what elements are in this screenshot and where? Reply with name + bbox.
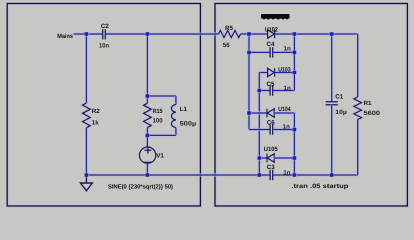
bottom rail right of C3 <box>273 173 358 177</box>
bottom rail left of C3 <box>86 173 270 177</box>
svg-text:C6: C6 <box>267 119 275 126</box>
svg-text:56: 56 <box>223 42 230 49</box>
bus wire busA <box>247 34 251 130</box>
wire R5 to U102 <box>241 32 268 36</box>
inductor L1 <box>171 105 175 128</box>
diode U103 <box>268 68 275 77</box>
svg-text:1n: 1n <box>284 85 291 92</box>
junction bottom rail / C1 <box>329 172 334 177</box>
wire midbus to U103 <box>259 71 267 75</box>
wire tank node to R15 <box>146 96 150 103</box>
capacitor C4 <box>270 47 273 57</box>
svg-text:1n: 1n <box>283 169 290 176</box>
junction tank bottom node <box>145 133 150 138</box>
junction busA / C4 row <box>246 50 251 55</box>
wire R2 to bottom rail <box>85 128 89 175</box>
junction top rail / right bus <box>292 31 297 36</box>
resistor R1 <box>354 97 362 120</box>
capacitor C6 <box>270 124 273 134</box>
wire busA to C4 <box>249 51 270 55</box>
junction right bus / C4 row <box>292 50 297 55</box>
wire top rail to R1 <box>356 34 360 97</box>
svg-text:10n: 10n <box>99 42 109 49</box>
diode U102 <box>268 30 275 39</box>
svg-text:U104: U104 <box>278 106 291 113</box>
junction top rail / R2 <box>84 31 89 36</box>
wire L1 top lead <box>174 96 178 105</box>
svg-text:1k: 1k <box>92 120 99 127</box>
wire busA to C6 <box>249 128 270 132</box>
ground <box>80 175 92 191</box>
junction busA / U104 row <box>246 110 251 115</box>
wire U102 to R1 corner <box>275 32 358 36</box>
wire C6 to right bus <box>273 128 294 132</box>
right schematic border box <box>215 4 407 207</box>
svg-text:R15: R15 <box>153 108 163 115</box>
svg-text:V1: V1 <box>156 153 164 160</box>
svg-text:10µ: 10µ <box>335 109 347 116</box>
wire C1 to bottom rail <box>330 105 334 175</box>
left schematic border box <box>7 4 200 207</box>
wire R1 to bottom rail <box>356 120 360 176</box>
bus wire right bus lower <box>293 113 297 175</box>
wire U105 to right bus <box>274 156 294 160</box>
bus wire right bus upper <box>293 34 297 91</box>
resistor R2 <box>83 103 91 128</box>
svg-text:100: 100 <box>153 118 164 125</box>
junction right bus / U105 row <box>292 155 297 160</box>
svg-text:U103: U103 <box>278 67 291 74</box>
svg-text:U105: U105 <box>264 146 279 153</box>
junction bottom rail / V1 <box>145 172 150 177</box>
wire top rail to R2 <box>85 34 89 103</box>
svg-text:C1: C1 <box>335 94 343 101</box>
junction top rail / C1 <box>329 31 334 36</box>
svg-text:L1: L1 <box>180 106 188 113</box>
wire V1 to bottom rail <box>146 163 150 175</box>
svg-text:C5: C5 <box>267 81 275 88</box>
resistor R15 <box>144 103 152 127</box>
svg-text:5600: 5600 <box>364 110 381 117</box>
diode U104 <box>267 109 274 118</box>
wire R15 to tank bottom node <box>146 128 150 136</box>
junction bottom rail / ground <box>84 172 89 177</box>
capacitor C5 <box>270 85 273 95</box>
svg-text:C4: C4 <box>267 41 275 48</box>
wire U104 to right bus <box>274 111 294 115</box>
wire tank to V1 <box>146 135 150 147</box>
capacitor C3 <box>270 170 273 180</box>
junction bottom rail / right bus <box>292 172 297 177</box>
highlighted directive blob <box>261 14 290 19</box>
wire midbus to U105 <box>259 156 267 160</box>
capacitor C1 <box>326 102 338 105</box>
wire busA to U104 <box>249 111 267 115</box>
junction top rail / busA <box>246 31 251 36</box>
svg-text:R2: R2 <box>92 108 100 115</box>
junction right bus / C6 row <box>292 127 297 132</box>
svg-text:C3: C3 <box>267 164 275 171</box>
svg-text:.tran .05 startup: .tran .05 startup <box>291 183 348 190</box>
wire top rail to C1 <box>330 34 334 102</box>
junction tank top node <box>145 93 150 98</box>
wire L1 bottom lead <box>174 128 178 136</box>
junction mid bus / C5 row <box>257 88 262 93</box>
svg-text:1n: 1n <box>284 46 291 53</box>
svg-text:C2: C2 <box>101 23 109 30</box>
wire C5 to right bus <box>273 89 294 93</box>
wire C2 to R5 <box>106 32 219 36</box>
wire tank bottom node to L1 <box>147 134 176 138</box>
bus wire mid bus <box>258 73 262 176</box>
wire top rail to tank <box>146 34 150 96</box>
svg-text:R5: R5 <box>225 25 233 32</box>
wire midbus to C5 <box>259 89 270 93</box>
capacitor C2 <box>103 29 106 39</box>
wire C4 to right bus <box>273 51 294 55</box>
svg-text:1n: 1n <box>283 123 290 130</box>
junction right bus / U103 row <box>292 70 297 75</box>
wire Mains to C2 <box>73 32 102 36</box>
svg-text:500µ: 500µ <box>180 120 197 127</box>
junction top rail / tank <box>145 31 150 36</box>
wire tank top node to L1 <box>147 94 176 98</box>
svg-text:SINE(0 {230*sqrt(2)} 50): SINE(0 {230*sqrt(2)} 50) <box>108 183 173 190</box>
junction mid bus / U105 row <box>257 155 262 160</box>
resistor R5 <box>219 30 241 37</box>
junction bottom rail / mid bus <box>257 172 262 177</box>
wire U103 to right bus <box>275 71 295 75</box>
svg-text:U102: U102 <box>265 27 278 34</box>
diode U105 <box>267 154 274 163</box>
voltage source V1 <box>139 147 155 163</box>
svg-text:R1: R1 <box>364 100 372 107</box>
svg-text:Mains: Mains <box>57 33 73 40</box>
